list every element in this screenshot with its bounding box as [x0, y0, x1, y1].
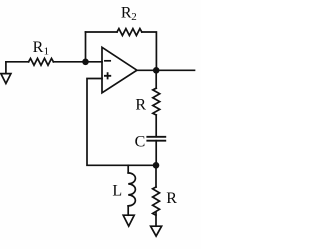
wire: op-amp output to right edge [137, 69, 195, 71]
label R2 [121, 5, 137, 23]
label R1 [33, 39, 50, 58]
svg-text:L: L [112, 183, 122, 200]
svg-text:1: 1 [44, 45, 50, 57]
wire: feedback rail right segment + drop to output node [142, 32, 157, 70]
label C [135, 133, 146, 150]
ground (left, under input) [1, 62, 11, 84]
wire: capacitor down to node B [155, 141, 157, 166]
resistor R2 [117, 29, 142, 36]
capacitor C [147, 137, 165, 141]
label R (upper) [135, 96, 146, 113]
wire: node B down to R [155, 165, 157, 187]
wire: ground corner to R1 [6, 61, 29, 63]
wire: R to ground [155, 212, 157, 226]
wire: non-inverting input down-and-around to node B [87, 79, 156, 166]
resistor R (lower, vertical) [153, 187, 160, 215]
op-amp U1 [102, 47, 137, 93]
wire: R1 to node A [53, 61, 102, 63]
resistor R1 [29, 58, 54, 65]
node B (bottom junction) [153, 162, 160, 169]
inductor L [128, 165, 135, 215]
svg-text:R: R [33, 39, 44, 56]
wire: output node down to R [155, 70, 157, 88]
label R (lower) [166, 190, 177, 207]
node A (inverting input junction) [82, 59, 89, 66]
wire: R to capacitor [155, 115, 157, 137]
output node [153, 67, 160, 74]
svg-text:R: R [166, 190, 177, 207]
wire: node A up to feedback rail [85, 32, 87, 62]
ground (under L) [123, 215, 134, 226]
svg-text:C: C [135, 133, 146, 150]
ground (under lower R) [151, 226, 162, 236]
wire: feedback rail left segment [86, 31, 118, 33]
svg-text:R: R [121, 5, 132, 22]
resistor R (upper, vertical) [153, 88, 160, 115]
label L [112, 183, 122, 200]
svg-text:2: 2 [131, 11, 137, 23]
svg-text:R: R [135, 96, 146, 113]
